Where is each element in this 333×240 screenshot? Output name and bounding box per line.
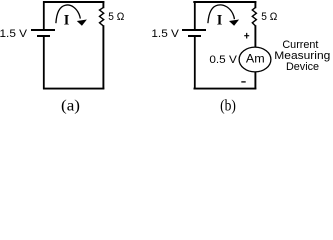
svg-text:I: I — [217, 13, 223, 29]
wire left lower (b) — [194, 37, 196, 90]
current arrow arc (b) — [208, 5, 235, 23]
wire left lower (a) — [43, 37, 45, 90]
battery B1 short plate (a) — [37, 35, 50, 37]
svg-text:5 Ω: 5 Ω — [261, 11, 277, 23]
wire right middle (b) — [254, 25, 256, 47]
current arrowhead (a) — [77, 20, 87, 26]
wire right upper stub (a) — [102, 1, 104, 8]
current arrow arc (a) — [56, 5, 80, 23]
svg-text:(b): (b) — [220, 98, 236, 115]
svg-text:5 Ω: 5 Ω — [108, 11, 124, 23]
wire right lower (b) — [254, 72, 256, 90]
resistor R2 zigzag (b) — [252, 8, 256, 26]
wire bottom (b) — [194, 88, 257, 90]
wire top (b) — [193, 1, 256, 3]
battery B2 long plate (b) — [182, 29, 206, 31]
wire left upper (b) — [194, 1, 196, 29]
wire right lower (a) — [102, 25, 104, 89]
ammeter M1 circle — [239, 47, 271, 72]
svg-text:(a): (a) — [61, 98, 80, 115]
wire left upper (a) — [43, 1, 45, 29]
wire right upper stub (b) — [254, 1, 256, 8]
svg-text:Device: Device — [286, 61, 319, 73]
wire top (a) — [43, 1, 104, 3]
plus sign — [244, 33, 249, 39]
minus sign — [241, 81, 245, 83]
resistor R1 zigzag (a) — [100, 8, 104, 26]
wire bottom (a) — [43, 88, 104, 90]
battery B1 long plate (a) — [31, 29, 55, 31]
svg-text:Am: Am — [246, 53, 265, 66]
current arrowhead (b) — [229, 20, 239, 26]
svg-text:I: I — [64, 13, 70, 29]
svg-text:0.5 V: 0.5 V — [209, 54, 237, 66]
battery B2 short plate (b) — [188, 35, 201, 37]
svg-text:1.5 V: 1.5 V — [0, 28, 27, 40]
svg-text:1.5 V: 1.5 V — [151, 28, 179, 40]
